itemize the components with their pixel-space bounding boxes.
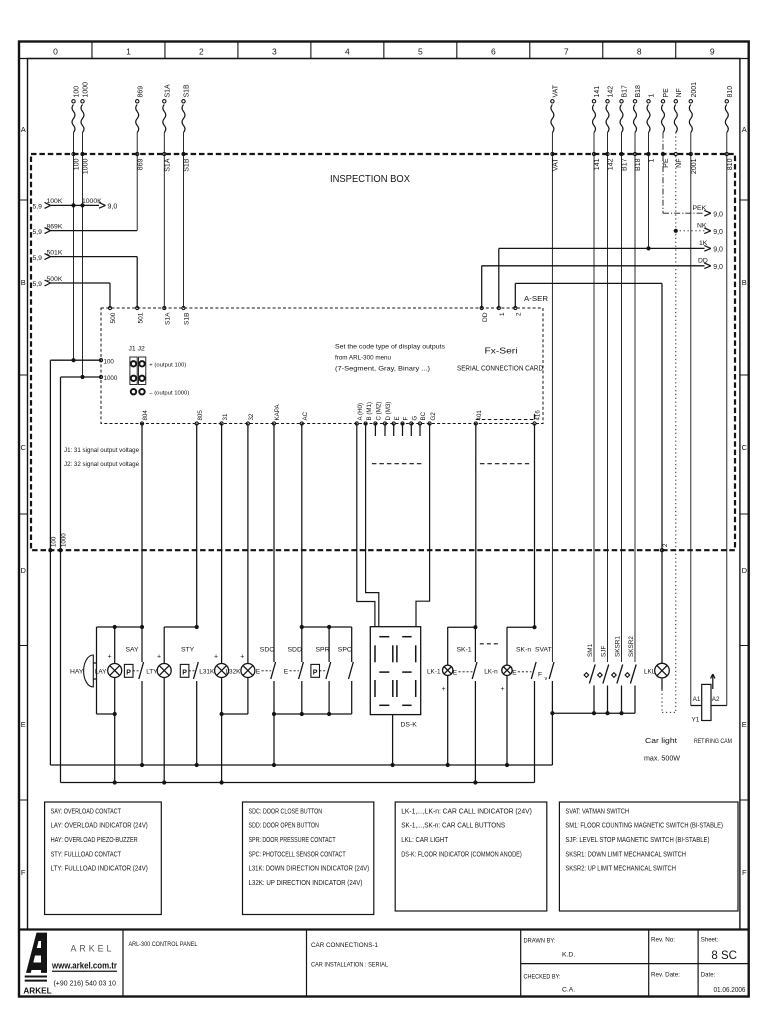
svg-text:VAT: VAT [553,158,560,171]
svg-text:LK-1: LK-1 [427,668,441,675]
svg-text:C: C [742,443,748,452]
svg-text:B18: B18 [635,85,642,98]
svg-text:100: 100 [74,158,81,170]
svg-text:SJF: LEVEL STOP MAGNETIC SWITC: SJF: LEVEL STOP MAGNETIC SWITCH (BI-STAB… [565,835,709,844]
svg-text:142: 142 [608,158,615,170]
svg-text:B: B [742,278,747,287]
svg-text:L32K: L32K [226,668,242,675]
svg-text:NF: NF [676,159,683,168]
svg-text:S1A: S1A [165,158,172,172]
svg-text:+: + [157,653,161,660]
svg-text:E: E [284,669,289,676]
svg-text:100: 100 [104,358,115,365]
svg-text:(7-Segment, Gray, Binary ...): (7-Segment, Gray, Binary ...) [335,366,430,373]
svg-text:K.D.: K.D. [562,952,575,959]
svg-text:+: + [214,653,218,660]
svg-text:SKSR1: DOWN LIMIT MECHANICAL: SKSR1: DOWN LIMIT MECHANICAL SWITCH [565,849,686,858]
svg-text:5,9: 5,9 [33,204,43,211]
svg-text:1: 1 [126,47,131,57]
svg-text:2001: 2001 [691,82,698,98]
svg-text:8: 8 [637,47,642,57]
svg-text:from ARL-300 menu: from ARL-300 menu [335,355,391,362]
svg-text:LK-1,...,LK-n: CAR CALL INDICA: LK-1,...,LK-n: CAR CALL INDICATOR (24V) [401,806,532,815]
svg-text:1: 1 [499,312,506,316]
svg-text:C: C [20,443,26,452]
svg-text:1000: 1000 [83,82,90,98]
svg-text:A-SER: A-SER [524,294,549,303]
svg-text:SKSR1: SKSR1 [615,636,622,657]
svg-text:SDC: DOOR CLOSE BUTTON: SDC: DOOR CLOSE BUTTON [249,806,323,815]
svg-text:KAPA: KAPA [274,404,281,421]
svg-text:E: E [453,670,458,677]
svg-text:A: A [742,125,747,134]
svg-text:P: P [313,670,318,677]
svg-text:+ (output 100): + (output 100) [149,362,186,368]
svg-text:869: 869 [137,158,144,170]
svg-text:LTY: LTY [146,668,158,675]
svg-text:L31K: DOWN DIRECTION INDICATOR: L31K: DOWN DIRECTION INDICATOR (24V) [249,864,370,873]
svg-text:4: 4 [345,47,350,57]
svg-text:869K: 869K [47,223,63,230]
svg-text:L31K: L31K [199,668,215,675]
svg-text:S1A: S1A [165,312,172,325]
svg-text:A1: A1 [693,696,701,703]
svg-text:+: + [501,686,505,693]
svg-text:F: F [742,868,747,877]
svg-text:CAR CONNECTIONS-1: CAR CONNECTIONS-1 [311,942,378,949]
svg-text:5,9: 5,9 [33,255,43,262]
svg-text:SVAT: VATMAN SWITCH: SVAT: VATMAN SWITCH [565,806,629,815]
svg-text:G: G [412,416,419,421]
svg-text:STY: FULLLOAD CONTACT: STY: FULLLOAD CONTACT [51,849,122,858]
svg-text:SDD: SDD [288,647,302,654]
svg-text:E: E [256,669,261,676]
svg-text:RETIRING CAM: RETIRING CAM [694,738,732,745]
svg-text:www.arkel.com.tr: www.arkel.com.tr [51,961,117,972]
svg-text:1: 1 [649,94,656,98]
svg-text:5,9: 5,9 [33,229,43,236]
svg-text:INSPECTION BOX: INSPECTION BOX [330,174,410,185]
svg-text:PE: PE [663,158,670,168]
svg-text:Rev. Date:: Rev. Date: [651,972,680,979]
svg-text:8 SC: 8 SC [711,950,737,962]
svg-text:L32K: UP DIRECTION INDICATOR (: L32K: UP DIRECTION INDICATOR (24V) [249,878,363,887]
svg-text:Rev. No:: Rev. No: [651,937,675,944]
svg-text:B: B [21,278,26,287]
svg-text:D: D [20,566,26,575]
svg-text:100: 100 [74,86,81,98]
svg-text:7: 7 [564,47,569,57]
svg-text:+: + [240,653,244,660]
svg-text:D (M3): D (M3) [385,402,392,421]
svg-text:500: 500 [110,312,117,323]
svg-text:9,0: 9,0 [713,229,723,236]
svg-text:2001: 2001 [691,158,698,174]
svg-text:HAY: OVERLOAD PIEZO-BUZZER: HAY: OVERLOAD PIEZO-BUZZER [51,835,138,844]
svg-text:P: P [182,670,187,677]
svg-text:A: A [21,125,26,134]
svg-text:HAY: HAY [70,669,84,676]
svg-text:SM1: SM1 [587,643,594,657]
svg-text:NF: NF [676,88,683,97]
svg-text:805: 805 [197,410,204,421]
svg-text:S1B: S1B [184,158,191,172]
svg-text:v: v [545,676,548,682]
svg-text:SDD: DOOR OPEN BUTTON: SDD: DOOR OPEN BUTTON [249,821,319,830]
svg-text:DS-K: DS-K [401,722,418,729]
svg-text:D: D [742,566,748,575]
svg-text:Set the code type of display o: Set the code type of display outputs [335,344,446,351]
svg-text:1000: 1000 [83,158,90,174]
svg-text:SPC: PHOTOCELL SENSOR CONTACT: SPC: PHOTOCELL SENSOR CONTACT [249,849,347,858]
svg-text:32: 32 [248,413,255,420]
svg-text:SJF: SJF [601,646,608,657]
svg-text:J1: 31 signal output voltage: J1: 31 signal output voltage [64,447,139,454]
svg-text:SPR: SPR [316,647,330,654]
svg-text:+: + [108,653,112,660]
svg-text:F: F [538,672,542,679]
svg-text:F: F [403,417,410,421]
svg-text:9: 9 [710,47,715,57]
svg-text:SM1: FLOOR COUNTING MAGNETIC S: SM1: FLOOR COUNTING MAGNETIC SWITCH (BI-… [565,821,723,830]
svg-text:100: 100 [51,536,58,547]
svg-text:SPR: DOOR PRESSURE CONTACT: SPR: DOOR PRESSURE CONTACT [249,835,337,844]
svg-text:810: 810 [727,158,734,170]
svg-text:E: E [512,670,517,677]
svg-text:Y1: Y1 [692,717,700,724]
svg-text:869: 869 [137,86,144,98]
svg-text:9,0: 9,0 [713,211,723,218]
svg-text:5,9: 5,9 [33,281,43,288]
svg-text:LTY: FULLLOAD INDICATOR (24V): LTY: FULLLOAD INDICATOR (24V) [51,864,148,873]
svg-text:3: 3 [272,47,277,57]
svg-text:LAY: LAY [95,668,107,675]
svg-text:416: 416 [535,410,542,421]
svg-text:2: 2 [516,312,523,316]
svg-text:E: E [394,416,401,420]
svg-text:S1B: S1B [184,312,191,325]
svg-text:S1A: S1A [165,84,172,98]
svg-text:LAY: OVERLOAD INDICATOR (24V): LAY: OVERLOAD INDICATOR (24V) [51,821,148,830]
svg-text:SK-1: SK-1 [457,647,472,654]
svg-text:PEK: PEK [693,205,707,212]
svg-text:B17: B17 [622,158,629,171]
svg-text:F: F [21,868,26,877]
svg-text:B17: B17 [622,85,629,98]
svg-text:1000: 1000 [61,533,68,547]
svg-text:9,0: 9,0 [713,247,723,254]
svg-text:J2: 32 signal output voltage: J2: 32 signal output voltage [64,461,139,468]
svg-text:VAT: VAT [553,84,560,97]
svg-text:SPC: SPC [338,647,352,654]
svg-text:PE: PE [663,88,670,98]
svg-text:401: 401 [476,410,483,421]
svg-text:DD: DD [482,312,489,322]
svg-text:LKL: LKL [644,668,656,675]
svg-text:SERIAL CONNECTION CARD: SERIAL CONNECTION CARD [457,366,543,373]
svg-text:C (M2): C (M2) [376,402,383,421]
svg-text:+: + [442,686,446,693]
svg-text:CAR INSTALLATION : SERIAL: CAR INSTALLATION : SERIAL [311,962,388,969]
svg-text:SKSR2: SKSR2 [628,636,635,657]
svg-text:A (H0): A (H0) [357,403,364,421]
svg-text:1K: 1K [699,240,708,247]
svg-text:804: 804 [142,410,149,421]
svg-text:5: 5 [418,47,423,57]
svg-text:SAY: SAY [126,647,140,654]
svg-text:B18: B18 [635,158,642,171]
svg-text:1000: 1000 [104,375,118,382]
svg-text:31: 31 [222,413,229,420]
svg-text:Car light: Car light [645,738,677,745]
svg-text:Sheet:: Sheet: [701,937,719,944]
svg-text:A2: A2 [712,696,720,703]
svg-text:BC: BC [420,411,427,420]
svg-text:ARKEL: ARKEL [23,986,51,995]
svg-text:SK-n: SK-n [516,647,531,654]
svg-text:SAY: OVERLOAD CONTACT: SAY: OVERLOAD CONTACT [51,806,122,815]
svg-text:(+90 216) 540 03 10: (+90 216) 540 03 10 [54,979,117,988]
svg-text:S1B: S1B [184,84,191,98]
svg-text:NK: NK [697,223,707,230]
svg-text:9,0: 9,0 [713,264,723,271]
svg-text:J1 J2: J1 J2 [129,346,145,353]
svg-text:1000K: 1000K [82,198,102,205]
svg-text:G2: G2 [430,412,437,421]
svg-text:– (output 1000): – (output 1000) [149,390,189,396]
svg-text:SKSR2: UP LIMIT MECHANICAL SWI: SKSR2: UP LIMIT MECHANICAL SWITCH [565,864,676,873]
svg-text:501: 501 [137,312,144,323]
svg-text:DRAWN BY:: DRAWN BY: [524,938,556,945]
svg-text:100K: 100K [47,198,63,205]
svg-text:1: 1 [649,158,656,162]
svg-text:AC: AC [302,411,309,420]
svg-text:2: 2 [199,47,204,57]
svg-text:2: 2 [662,543,669,547]
svg-text:Fx-Seri: Fx-Seri [485,347,518,356]
svg-text:STY: STY [181,647,195,654]
svg-text:9,0: 9,0 [108,204,118,211]
svg-text:DS-K: FLOOR INDICATOR (COMMON: DS-K: FLOOR INDICATOR (COMMON ANODE) [401,849,522,858]
svg-text:Date:: Date: [701,972,716,979]
svg-text:LKL: CAR LIGHT: LKL: CAR LIGHT [401,835,448,844]
svg-text:C.A.: C.A. [562,987,575,994]
svg-text:SVAT: SVAT [535,647,552,654]
svg-text:0: 0 [53,47,58,57]
svg-text:SDC: SDC [260,647,274,654]
svg-text:142: 142 [608,86,615,98]
svg-text:ARKEL: ARKEL [71,944,115,954]
svg-text:ARL-300 CONTROL PANEL: ARL-300 CONTROL PANEL [129,941,198,948]
svg-text:CHECKED BY:: CHECKED BY: [524,974,561,981]
svg-text:B (M1): B (M1) [366,402,373,421]
svg-text:6: 6 [491,47,496,57]
svg-text:E: E [21,720,26,729]
svg-text:P: P [126,670,131,677]
svg-text:141: 141 [594,158,601,170]
svg-text:01.06.2006: 01.06.2006 [714,985,746,994]
svg-text:810: 810 [727,86,734,98]
svg-text:500K: 500K [47,276,63,283]
svg-text:SK-1,...,SK-n: CAR CALL BUTTON: SK-1,...,SK-n: CAR CALL BUTTONS [401,821,505,830]
svg-text:max. 500W: max. 500W [644,756,680,763]
svg-text:E: E [742,720,747,729]
svg-text:DD: DD [698,258,708,265]
svg-text:LK-n: LK-n [484,668,498,675]
svg-text:141: 141 [594,86,601,98]
svg-text:501K: 501K [47,249,63,256]
